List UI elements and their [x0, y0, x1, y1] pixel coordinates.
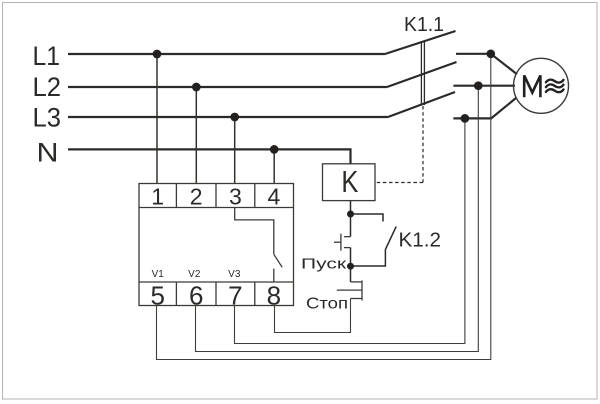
svg-text:Пуск: Пуск — [301, 256, 347, 272]
svg-text:L1: L1 — [33, 41, 61, 71]
svg-text:V2: V2 — [188, 269, 201, 280]
svg-text:K1.1: K1.1 — [404, 14, 444, 36]
svg-text:V3: V3 — [228, 269, 241, 280]
svg-text:7: 7 — [228, 281, 242, 311]
svg-text:3: 3 — [229, 184, 242, 210]
svg-text:4: 4 — [268, 184, 281, 210]
svg-text:5: 5 — [150, 281, 164, 311]
svg-text:K1.2: K1.2 — [399, 229, 442, 251]
svg-text:1: 1 — [151, 184, 164, 210]
svg-text:8: 8 — [267, 281, 281, 311]
svg-text:6: 6 — [189, 281, 203, 311]
svg-text:2: 2 — [190, 184, 203, 210]
svg-text:K: K — [341, 164, 358, 199]
svg-text:L2: L2 — [33, 72, 62, 102]
svg-text:N: N — [37, 138, 59, 168]
svg-text:Стоп: Стоп — [306, 295, 348, 312]
svg-text:L3: L3 — [33, 103, 62, 133]
svg-text:V1: V1 — [152, 269, 165, 280]
